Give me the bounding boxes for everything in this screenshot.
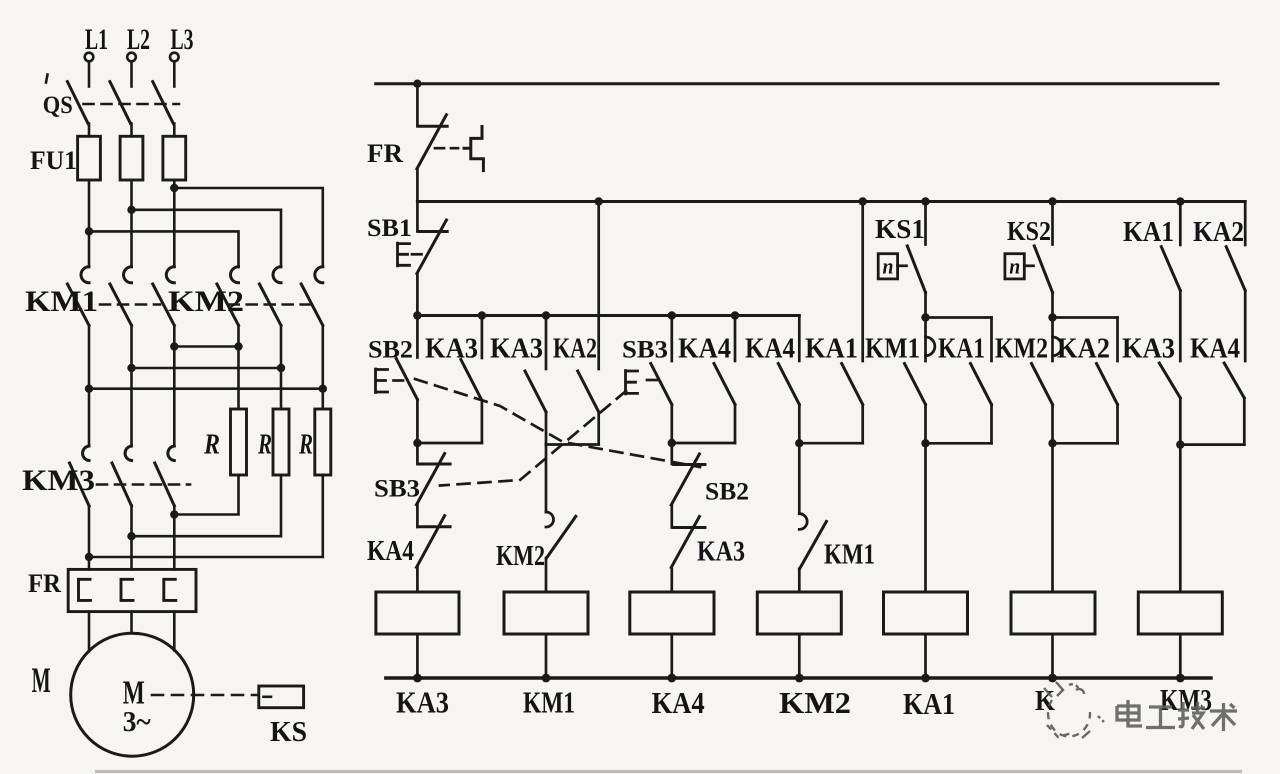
svg-text:FU1: FU1 (30, 146, 77, 175)
thermal relay FR box (68, 569, 196, 611)
rung6 wire to coil (1051, 443, 1054, 592)
wire pole3 down (173, 325, 176, 446)
wire KA1 x8 lower (861, 405, 864, 444)
SB1 NC contact blade (417, 220, 447, 274)
contact KA4 NO x6 upper wire (734, 316, 737, 362)
contact SB3 NO x5 blade (651, 364, 672, 405)
rung1 SB3 NC tick (418, 463, 450, 466)
contact KA4 NO x7 upper wire (798, 316, 801, 362)
node pole3 to R1 return (170, 510, 178, 518)
watermark char shu (1210, 703, 1237, 731)
SB1 button head E (398, 243, 410, 266)
FR heater element 3 (164, 579, 176, 600)
svg-text:KA4: KA4 (745, 334, 795, 365)
contact KA2 NO x4 upper wire (597, 202, 600, 370)
svg-text:R: R (257, 430, 272, 461)
fuse FU1 pole 1 (78, 136, 101, 180)
wire KM3 pole3 out (173, 506, 176, 570)
rung1 wire to coil (416, 567, 419, 592)
contactor KM3 pole 1 blade (70, 463, 90, 506)
svg-text:KM2: KM2 (779, 685, 851, 720)
svg-text:KA1: KA1 (903, 686, 955, 721)
wire rung2 join horizontal (546, 443, 599, 446)
node bus2 x8 (859, 197, 867, 205)
svg-text:KM1: KM1 (523, 685, 575, 720)
contact KM1 NO x9 blade (905, 364, 926, 405)
contact SB2 NO blade (396, 359, 417, 400)
contact KA1 NO x13 upper wire (1179, 202, 1182, 246)
bus third line (417, 314, 799, 317)
SB3 dash to blade (647, 379, 658, 382)
KM1 x9 arc (926, 337, 935, 356)
svg-text:SB2: SB2 (705, 479, 749, 506)
resistor R1 (231, 409, 247, 475)
node bottom rung7 (1176, 674, 1185, 683)
wire rung6 join horizontal (1053, 442, 1118, 445)
FR dashed link to trip element (435, 147, 458, 150)
node L1 branch (85, 227, 93, 235)
contact KM1 NO x9 upper wire with arc (924, 318, 927, 362)
wire FR to bus2 (416, 169, 419, 202)
KM3 linkage dashed (97, 483, 190, 486)
node bus3 x6 (731, 311, 739, 319)
rung1 coil to bottom bus (416, 634, 419, 678)
node bottom rung3 (667, 674, 676, 683)
svg-text:KS1: KS1 (875, 214, 925, 244)
fuse FU1 pole 2 (120, 136, 143, 180)
svg-text:FR: FR (28, 569, 61, 598)
svg-text:R: R (203, 430, 220, 461)
terminal L1 (85, 53, 94, 62)
svg-text:KA3: KA3 (396, 685, 449, 720)
svg-text:KA4: KA4 (367, 536, 414, 567)
node pole2 tie (127, 364, 135, 372)
wire KA4 x7 lower (798, 405, 801, 444)
node bottom rung1 (413, 674, 422, 683)
svg-text:KM1: KM1 (25, 285, 98, 318)
wire KS2 to node (1051, 292, 1054, 317)
wire pole4 down to R1 (237, 325, 240, 409)
rung2 wire to KM2 NC (545, 445, 548, 513)
svg-text:KA1: KA1 (805, 334, 858, 365)
wire FR to motor 2 (130, 612, 133, 634)
svg-text:SB1: SB1 (367, 215, 412, 242)
FR NC contact tick (419, 125, 447, 128)
rung3 wire between NC (670, 505, 673, 528)
svg-text:M: M (123, 674, 145, 711)
speed switch KS2 blade (1034, 246, 1052, 293)
svg-text:KM2: KM2 (168, 285, 244, 318)
svg-text:KA2: KA2 (1057, 334, 1110, 365)
coil KA3 (376, 592, 459, 634)
wire x13 middle (1179, 291, 1182, 362)
wire fuse3 down to KM row (173, 180, 176, 267)
SB2 button head E (376, 369, 388, 393)
contact SB2 NO upper wire (416, 316, 419, 358)
rung3 SB2 NC tick (674, 463, 705, 466)
wire KM3 pole2 out (130, 506, 133, 570)
dashed link motor to KS (152, 694, 257, 697)
contactor KM1 pole 3 arc (166, 267, 174, 283)
svg-text:SB3: SB3 (374, 476, 420, 503)
rung3 KA3 NC tick (674, 526, 705, 529)
contactor KM1 pole 1 blade (67, 284, 89, 325)
svg-text:KM1: KM1 (865, 334, 920, 365)
svg-text:KM3: KM3 (22, 464, 95, 497)
node pole3 tie (170, 342, 178, 350)
wire rung5 join horizontal (926, 442, 992, 445)
contactor KM1 pole 2 arc (124, 267, 132, 283)
wire QS2 to fuse (130, 124, 133, 137)
svg-text:3~: 3~ (123, 707, 151, 738)
KS1 dash to blade (898, 264, 907, 267)
node pole6 tie (319, 385, 327, 393)
contact KA2 NO x12 blade (1097, 364, 1118, 405)
FR heater element 1 (79, 579, 91, 600)
svg-text:SB2: SB2 (368, 337, 413, 364)
node rung6 join (1048, 439, 1056, 447)
svg-text:KA3: KA3 (1122, 334, 1175, 365)
node rung3 join (668, 439, 676, 447)
svg-text:SB3: SB3 (622, 337, 668, 364)
SB1 dash to blade (412, 253, 422, 256)
wire x13 lower (1179, 398, 1182, 445)
switch QS linkage dashed (84, 103, 180, 106)
wire tie pole1-pole6 (89, 387, 323, 390)
wire R3 bypass (89, 475, 323, 557)
svg-text:n: n (1009, 254, 1020, 279)
wire rung7 join horizontal (1180, 443, 1244, 446)
contact KM2 NO x11 upper wire (1051, 318, 1054, 362)
wire x14 middle (1244, 291, 1247, 362)
wire bus2 end corner to x14 (1244, 202, 1247, 246)
contact KA4 NO x14 blade (1224, 363, 1244, 398)
svg-text:L2: L2 (127, 23, 150, 56)
rung7 coil to bottom bus (1179, 634, 1182, 678)
rung6 coil to bottom bus (1051, 634, 1054, 678)
svg-text:FR: FR (367, 139, 403, 168)
node rung1 join (413, 439, 421, 447)
wire QS1 to fuse (88, 124, 91, 137)
rung1 wire between NC (416, 505, 419, 527)
contactor KM2 pole 6 blade (301, 284, 323, 325)
wire L3 drop (173, 62, 176, 87)
contactor KM1 pole 1 arc (81, 267, 89, 283)
svg-text:L1: L1 (85, 23, 108, 56)
node KS1 out (921, 313, 929, 321)
contact KA2 NO x14 blade (1226, 247, 1245, 291)
contactor KM3 pole 3 arc (168, 446, 174, 461)
rung2 KM2 NC arc (546, 512, 554, 527)
contact KA2 NO x12 upper wire (1116, 318, 1119, 362)
wire R2 bypass (132, 475, 282, 536)
wire rung1 join horizontal (417, 442, 482, 445)
wire x14 lower (1243, 398, 1246, 445)
wire pole5 down to R2 (280, 325, 283, 409)
dashed link SB2 to SB2 NC (415, 379, 700, 467)
wire KA1 x10 lower (990, 405, 993, 444)
coil KA1 (884, 592, 968, 634)
wire FR to motor 1 (88, 612, 91, 652)
dashed link SB3 to SB3 NC (440, 391, 626, 486)
contact KA3 NO x3 blade (525, 371, 546, 412)
svg-text:L3: L3 (171, 23, 194, 56)
wire fuse1 down to KM row (88, 180, 91, 267)
wire jumper rung6 top (1053, 316, 1118, 319)
svg-text:KA4: KA4 (1190, 334, 1240, 365)
node L3 branch (170, 184, 178, 192)
rung4 KM1 NC blade (800, 521, 827, 568)
contactor KM3 pole 3 blade (155, 463, 175, 506)
motor M circle (71, 633, 194, 756)
contact KA4 NO x7 blade (778, 364, 799, 405)
rung5 wire to coil (924, 443, 927, 592)
svg-text:KA3: KA3 (425, 334, 478, 365)
node bus2 x4 (595, 197, 603, 205)
wire KM1 x9 lower (924, 405, 927, 444)
rung1 SB3 NC blade (417, 454, 445, 505)
coil KM3 (1138, 592, 1222, 634)
node bus2 x11 (1048, 197, 1056, 205)
node pole5 tie (277, 364, 285, 372)
wire L3 to KM2 pole 6 (174, 188, 322, 267)
wire KA4 x6 lower (734, 405, 737, 444)
rung5 coil to bottom bus (924, 634, 927, 678)
watermark char dian (1117, 700, 1142, 726)
wire KS1 to node (924, 292, 927, 317)
contact KA1 NO x8 blade (842, 364, 863, 405)
wire tie pole2-pole5 (132, 367, 282, 370)
node L2 branch (127, 206, 135, 214)
svg-text:KA1: KA1 (1123, 217, 1174, 248)
node bus3 x3 (542, 311, 550, 319)
bus top line (376, 82, 1218, 85)
wire SB3 x5 lower (670, 405, 673, 465)
contact KA3 NO x2 upper wire (481, 316, 484, 359)
contactor KM2 pole 5 blade (259, 284, 281, 325)
rung3 KA3 NC blade (671, 517, 699, 568)
coil KM2 (757, 592, 841, 634)
node bus3 x5 (668, 311, 676, 319)
rung2 coil to bottom bus (545, 634, 548, 678)
terminal L2 (127, 53, 136, 62)
node bottom rung6 (1048, 674, 1057, 683)
wire pole6 down to R3 (321, 325, 324, 409)
svg-text:KA1: KA1 (938, 334, 985, 365)
rung2 wire to coil (545, 558, 548, 592)
contactor KM2 pole 4 arc (231, 267, 239, 283)
wire L1 drop (88, 62, 91, 87)
svg-text:KM2: KM2 (496, 541, 545, 572)
node rung5 join (921, 439, 929, 447)
KS2 n box (1005, 254, 1024, 279)
bus bottom line (386, 676, 1211, 679)
wire R1 bypass (174, 475, 238, 515)
wire pole2 down (130, 325, 133, 446)
contact KA3 NO x13 blade (1159, 363, 1180, 398)
wire jumper rung5 top (926, 316, 992, 319)
KS1 n box (878, 254, 897, 279)
rung2 KM2 NC blade (547, 516, 576, 558)
node bottom rung4 (795, 674, 804, 683)
node bus2 x9 (921, 197, 929, 205)
contact KA1 NO x13 blade (1161, 247, 1180, 291)
node KS2 out (1048, 313, 1056, 321)
contactor KM2 pole 4 blade (217, 284, 239, 325)
KS box inner dash (264, 695, 272, 698)
rung4 wire to coil (798, 569, 801, 592)
pushbutton SB1 wire (416, 202, 419, 232)
node rung4 join (795, 439, 803, 447)
wire SB2 lower (416, 400, 419, 465)
speed relay KS box (259, 686, 304, 708)
wire rung4 join horizontal (799, 442, 862, 445)
svg-text:R: R (298, 430, 313, 461)
node rung7 join (1176, 440, 1184, 448)
wire KM2 x11 lower (1051, 405, 1054, 444)
KM2 linkage dashed (229, 303, 313, 306)
wire L1 to KM2 pole 4 (89, 231, 239, 266)
svg-text:KS: KS (270, 716, 307, 748)
wire tie pole3-pole4 (174, 345, 238, 348)
node bottom rung5 (921, 674, 930, 683)
wire FR to motor 3 (173, 612, 176, 651)
svg-text:KM2: KM2 (995, 334, 1048, 365)
svg-text:KA2: KA2 (1193, 217, 1244, 248)
wire KA2 x4 lower (597, 412, 600, 445)
FR heater element 2 (121, 579, 133, 600)
wire L2 to KM2 pole 5 (132, 210, 282, 267)
contactor KM2 pole 6 arc (315, 267, 323, 283)
contact KA3 NO x3 upper wire (545, 316, 548, 370)
watermark logo scribble (1044, 682, 1104, 738)
contact KA1 NO x8 upper wire (861, 202, 864, 362)
rung4 KM1 NC arc (799, 514, 807, 530)
svg-text:KA2: KA2 (553, 334, 597, 365)
watermark char ji (1178, 702, 1205, 729)
wire KA3 x2 lower (481, 401, 484, 444)
rung1 KA4 NC blade (417, 516, 445, 568)
coil KA2 (1011, 592, 1095, 634)
wire SB1 to bus3 (416, 274, 419, 316)
wire L2 drop (130, 62, 133, 87)
contact SB3 NO x5 upper wire (670, 316, 673, 362)
node pole2 to R2 return (127, 532, 135, 540)
rung7 wire to coil (1179, 445, 1182, 592)
contactor KM3 pole 2 blade (112, 463, 132, 506)
wire KA2 x12 lower (1116, 405, 1119, 444)
contactor KM1 pole 3 blade (153, 284, 175, 325)
node pole1 to R3 return (85, 553, 93, 561)
contact KA4 NO x6 blade (714, 364, 735, 405)
wire KM3 pole1 out (88, 506, 91, 570)
contact KA3 NO x2 blade (461, 360, 482, 401)
rung3 wire to coil (670, 568, 673, 593)
terminal L3 (170, 53, 179, 62)
KM2 x11 arc (1053, 337, 1062, 356)
contactor KM3 pole 2 arc (125, 446, 131, 461)
contactor KM1 pole 2 blade (110, 284, 132, 325)
speed switch KS1 blade (907, 246, 925, 293)
FR trip element symbol (464, 127, 483, 171)
resistor R3 (315, 409, 331, 475)
contactor KM3 pole 1 arc (83, 446, 89, 461)
rung4 wire to KM1 NC (798, 443, 801, 514)
bus second line (417, 200, 1245, 203)
switch QS pole 1 blade (67, 82, 88, 124)
wire fuse2 down to KM row (130, 180, 133, 267)
node bus3 x1 (413, 311, 421, 319)
SB3 button head E (626, 371, 638, 394)
node bus2 x13 (1176, 197, 1184, 205)
svg-text:n: n (883, 254, 894, 279)
SB2 dash to blade (394, 379, 404, 382)
rung1 KA4 NC tick (418, 525, 450, 528)
wire rung3 join horizontal (672, 442, 735, 445)
speed switch KS1 wire (924, 202, 927, 245)
SB1 NC contact tick (419, 230, 447, 233)
svg-text:KA4: KA4 (652, 685, 705, 720)
FR NC contact blade (417, 115, 447, 169)
tick mark above QS (46, 75, 48, 83)
svg-text:M: M (32, 660, 51, 700)
rung3 SB2 NC blade (671, 454, 699, 505)
svg-text:KA3: KA3 (697, 537, 745, 568)
node pole4 tie (234, 342, 242, 350)
node FR on top bus (413, 80, 421, 88)
node bus3 x2 (478, 311, 486, 319)
switch QS pole 2 blade (110, 82, 131, 124)
svg-text:KM1: KM1 (824, 540, 875, 571)
coil KM1 (504, 592, 588, 634)
contact KA1 NO x10 blade (971, 364, 992, 405)
speed switch KS2 wire (1051, 202, 1054, 245)
rung4 coil to bottom bus (798, 634, 801, 678)
wire KA3 x3 lower (545, 412, 548, 445)
resistor R2 (273, 409, 289, 475)
wire pole1 down (88, 325, 91, 446)
svg-text:KA3: KA3 (490, 334, 543, 365)
contact KA1 NO x10 upper wire (990, 318, 993, 362)
contact KM2 NO x11 blade (1032, 364, 1053, 405)
KS2 dash to blade (1025, 264, 1034, 267)
bottom gray bar (95, 770, 1242, 773)
coil KA4 (630, 592, 714, 634)
switch QS pole 3 blade (153, 82, 174, 124)
KM1 linkage dashed (100, 303, 160, 306)
svg-text:KA4: KA4 (678, 334, 731, 365)
rung3 coil to bottom bus (670, 634, 673, 678)
node bottom rung2 (542, 674, 551, 683)
contactor KM2 pole 5 arc (273, 267, 281, 283)
svg-text:KS2: KS2 (1007, 216, 1051, 246)
watermark char gong (1146, 707, 1175, 728)
node pole1 tie (85, 385, 93, 393)
svg-text:QS: QS (43, 92, 73, 119)
contact KA2 NO x4 blade (578, 371, 599, 412)
wire top bus to FR contact (416, 84, 419, 127)
wire QS3 to fuse (173, 124, 176, 137)
fuse FU1 pole 3 (163, 136, 186, 180)
